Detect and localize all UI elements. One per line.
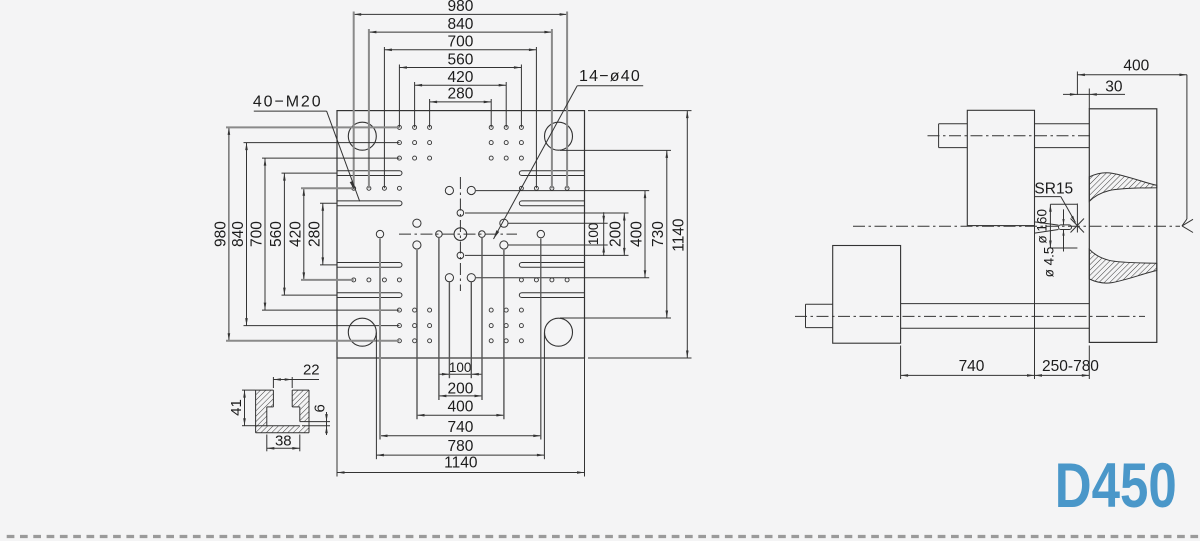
svg-text:100: 100 — [586, 223, 601, 246]
T-slot cross-section detail — [256, 390, 274, 426]
dim 30 side — [1063, 93, 1125, 95]
svg-text:400: 400 — [447, 399, 473, 416]
svg-text:200: 200 — [608, 221, 625, 247]
rod stub — [806, 303, 833, 305]
dim 420 top — [415, 84, 507, 86]
dim oe4.5 — [1063, 209, 1065, 225]
dim 980 left — [228, 127, 230, 340]
dim 560 left — [283, 173, 285, 295]
right dimension lines 100 200 400 730 1140 — [603, 212, 605, 256]
tie bar segment to platen — [1035, 123, 1090, 125]
svg-text:1140: 1140 — [444, 455, 478, 472]
svg-text:ø 160: ø 160 — [1034, 209, 1049, 244]
locating recess hatched profile upper — [1089, 173, 1157, 202]
svg-text:100: 100 — [449, 360, 472, 375]
injection carriage face / ext line — [1034, 226, 1036, 379]
dim 280 top — [430, 101, 492, 103]
svg-text:420: 420 — [447, 69, 473, 86]
model label D450 — [1055, 451, 1177, 521]
detail dim 38 — [267, 447, 300, 449]
bottom dimension lines — [438, 373, 482, 375]
injection unit top block — [967, 110, 1034, 225]
svg-text:560: 560 — [268, 221, 285, 247]
dim 420 left — [303, 188, 305, 280]
detail dim 41 — [244, 390, 246, 426]
svg-text:700: 700 — [249, 221, 266, 247]
tie bar holes — [348, 122, 376, 150]
centerline arrow — [1182, 219, 1193, 226]
svg-text:730: 730 — [650, 221, 667, 247]
nozzle tip capsule — [1059, 225, 1072, 230]
detail dim 22 — [273, 379, 319, 381]
svg-text:840: 840 — [447, 16, 473, 33]
dim 560 top — [399, 67, 521, 69]
svg-text:D450: D450 — [1055, 451, 1177, 521]
nozzle axis centerline — [853, 225, 1180, 227]
M20 bolt hole pattern 40-M20 — [397, 125, 401, 129]
barrel — [901, 303, 1090, 305]
svg-text:420: 420 — [288, 221, 305, 247]
svg-text:30: 30 — [1105, 78, 1123, 95]
svg-text:400: 400 — [1123, 58, 1149, 75]
side view: stationary platen slab — [1089, 109, 1157, 343]
svg-text:400: 400 — [628, 221, 645, 247]
detail dim 6 — [326, 412, 328, 435]
dim 840 top — [369, 31, 552, 33]
svg-text:14−ø40: 14−ø40 — [579, 68, 641, 85]
svg-text:22: 22 — [303, 362, 320, 379]
dashed bottom border — [7, 535, 1200, 538]
platen front view outline — [337, 111, 585, 358]
ejector holes on 100/200 pitch — [457, 210, 464, 217]
centerlines — [399, 233, 517, 235]
carriage block — [833, 246, 901, 344]
T-slots on platen edges — [337, 171, 402, 176]
dim 700 left — [264, 158, 266, 310]
svg-text:250-780: 250-780 — [1042, 358, 1099, 375]
oe40 holes — [376, 230, 383, 237]
dims 740 / 250-780 — [901, 374, 1035, 376]
svg-text:560: 560 — [447, 51, 473, 68]
dim oe160 — [1049, 204, 1051, 248]
locating recess hatched profile lower — [1089, 249, 1157, 283]
svg-text:700: 700 — [447, 34, 473, 51]
top dim extension lines — [353, 12, 355, 189]
lower centerline — [795, 315, 1145, 317]
dim 980 top — [354, 13, 567, 15]
nozzle cone — [1035, 222, 1059, 225]
left dim extension lines — [226, 126, 399, 128]
svg-text:6: 6 — [311, 404, 328, 412]
centre locating hole — [454, 228, 467, 241]
nozzle sphere seat X — [1071, 219, 1085, 233]
svg-text:740: 740 — [447, 419, 473, 436]
dim 700 top — [384, 49, 536, 51]
svg-text:38: 38 — [275, 432, 292, 449]
svg-text:280: 280 — [447, 86, 473, 103]
svg-text:740: 740 — [959, 358, 985, 375]
svg-text:SR15: SR15 — [1034, 180, 1073, 197]
tie bar end stub — [939, 123, 968, 125]
dim 400 side — [1077, 74, 1187, 76]
dim 280 left — [322, 203, 324, 265]
svg-text:200: 200 — [447, 380, 473, 397]
svg-text:840: 840 — [230, 221, 247, 247]
svg-text:ø 4.5: ø 4.5 — [1042, 247, 1057, 278]
svg-text:980: 980 — [213, 221, 230, 247]
svg-text:1140: 1140 — [671, 218, 688, 252]
dim 840 left — [246, 143, 248, 326]
svg-text:780: 780 — [447, 438, 473, 455]
svg-text:40−M20: 40−M20 — [253, 94, 323, 111]
tie bar centerline — [928, 135, 1094, 137]
svg-text:980: 980 — [447, 0, 473, 15]
svg-text:41: 41 — [228, 399, 245, 416]
svg-text:280: 280 — [307, 221, 324, 247]
